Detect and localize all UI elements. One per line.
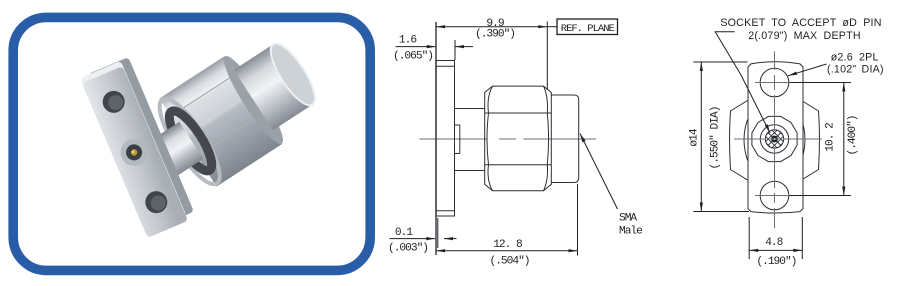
svg-text:(.003″): (.003″) [388,243,428,255]
svg-text:Male: Male [619,226,642,238]
svg-text:(.550″ DIA): (.550″ DIA) [710,107,722,170]
svg-text:(.190″): (.190″) [756,256,796,268]
svg-text:10. 2: 10. 2 [825,123,837,152]
svg-text:0.1: 0.1 [395,227,413,239]
svg-text:(.065″): (.065″) [393,51,433,63]
svg-text:REF. PLANE: REF. PLANE [561,23,615,35]
svg-text:(.390″): (.390″) [475,29,515,41]
svg-text:(.400″): (.400″) [847,116,859,156]
svg-text:SOCKET TO ACCEPT øD PIN: SOCKET TO ACCEPT øD PIN [720,17,881,29]
svg-text:4.8: 4.8 [765,237,782,249]
svg-text:(.504″): (.504″) [490,256,530,268]
svg-text:SMA: SMA [619,213,637,225]
svg-text:1.6: 1.6 [399,35,416,47]
svg-text:ø14: ø14 [689,128,701,146]
svg-text:12. 8: 12. 8 [493,239,522,251]
svg-text:(.102" DIA): (.102" DIA) [827,64,884,76]
svg-text:2(.079") MAX DEPTH: 2(.079") MAX DEPTH [748,30,861,42]
svg-text:ø2.6 2PL: ø2.6 2PL [831,52,879,64]
